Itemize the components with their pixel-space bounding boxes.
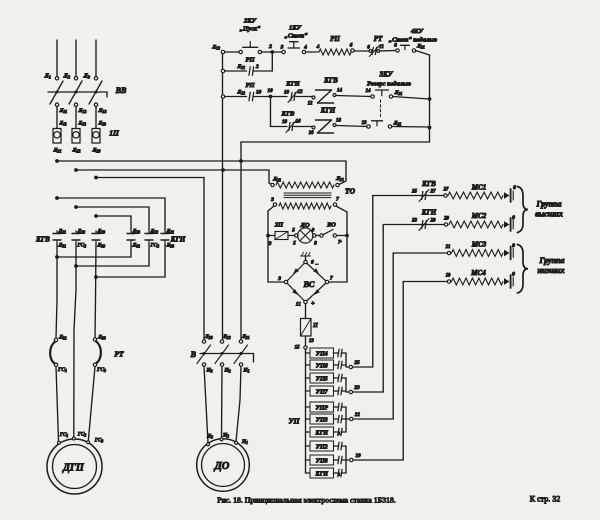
svg-text:12: 12 [308,102,313,107]
fuse 1P phase 3 [92,121,106,143]
wire group3 link [342,407,346,432]
svg-text:19: 19 [446,274,451,279]
wire row1 c [306,51,318,53]
svg-text:„Стоп“: „Стоп“ [285,33,309,40]
terminal GS1 [58,432,69,444]
svg-text:Л33: Л33 [97,243,106,249]
svg-text:Л22: Л22 [72,148,81,154]
svg-text:Л13: Л13 [98,108,107,114]
svg-text:Л12: Л12 [211,45,220,51]
svg-text:9: 9 [312,229,315,234]
limit switch УП6 rung [306,360,343,370]
wire L1 incoming phase 1 [56,40,58,77]
svg-text:16: 16 [296,120,302,125]
wire row2 [225,70,247,72]
svg-text:Л22: Л22 [77,229,86,235]
svg-text:Л21: Л21 [393,121,402,127]
wire bus phase2 drop to transformer [269,170,273,185]
svg-text:–: – [315,262,319,268]
wire N3 to motor [204,366,208,443]
svg-text:21: 21 [445,245,451,250]
switch V pole L22 [215,334,231,374]
terminal N1 [235,439,249,445]
button 3KU fwd contact [366,71,412,99]
contact RT row1 [367,35,384,57]
node 21 [346,412,393,421]
node L13 [94,103,106,114]
limit switch УП8 rung [306,455,343,465]
svg-text:0: 0 [513,185,516,191]
wire KGN bottom link to phase1 [55,243,131,259]
limit switch УП5 rung [306,373,343,383]
button 4KU stop pedal [389,28,438,52]
wire bus phase1 [55,159,346,163]
contact KGN column 3 [161,229,174,249]
svg-text:Н3: Н3 [206,434,213,440]
wire phase3 down [95,243,96,338]
wire L2 incoming phase 2 [75,40,77,77]
svg-text:Л11: Л11 [59,121,67,126]
wire phase2 down [74,243,76,437]
terminal N2 [220,433,229,441]
wire row1 b [262,51,283,53]
svg-text:ГС2: ГС2 [77,432,87,438]
fuse P [301,319,319,337]
svg-text:низших: низших [537,266,564,275]
svg-text:2: 2 [268,44,272,50]
wire node2 drop [271,52,273,71]
svg-text:Л81: Л81 [132,243,141,249]
svg-text:6: 6 [350,43,353,49]
limit switch УП3 rung [306,414,343,424]
label KGV [35,236,50,244]
limit switch УП4 rung [306,348,343,358]
svg-text:7: 7 [330,276,333,282]
wire N2 to motor [221,366,224,438]
wire phase1 down [56,243,57,338]
label L21 [53,148,62,154]
solenoid MC1 [443,184,517,203]
svg-text:Л31: Л31 [58,335,67,341]
wire fuse P down [306,336,315,346]
wire row4 a [271,126,288,128]
wire L11 to fuse [56,106,58,128]
wire row1 d [354,50,369,52]
node L1 [44,74,59,81]
label TO [345,187,356,196]
svg-text:25: 25 [353,360,360,366]
label UP [288,417,300,426]
svg-text:УП5: УП5 [316,376,328,382]
svg-text:9: 9 [314,242,317,247]
svg-text:КГВ: КГВ [281,111,295,118]
svg-text:Л21: Л21 [416,44,425,50]
coil KGV [308,77,343,107]
diode VS lower-right [314,289,320,295]
svg-text:„Пуск“: „Пуск“ [240,26,261,33]
svg-text:Л21: Л21 [241,334,250,340]
node L11 [55,103,67,114]
terminal GS2 [72,432,86,441]
svg-text:КГН: КГН [170,236,186,244]
svg-text:15: 15 [295,346,301,351]
wire row2 b [254,70,272,72]
wire VS to fuse P [305,304,307,319]
fuse 1P phase 1 [53,121,67,143]
wire GS3 to motor [88,367,95,441]
svg-text:ГС3: ГС3 [96,367,106,373]
wire L3 incoming phase 3 [95,40,97,77]
contact RP row3 [236,82,261,101]
svg-text:КГВ: КГВ [421,180,436,188]
wire row4 to right rail [392,126,430,129]
wire row3 to right rail [393,97,430,100]
svg-text:ГС1: ГС1 [57,367,67,373]
svg-text:Л13: Л13 [98,121,106,126]
svg-text:2П: 2П [274,222,284,229]
label V [190,350,197,359]
wire KGN bottom link to phase3 [94,243,165,279]
wire N1 to motor [236,366,241,441]
caption [217,496,396,505]
page ref [530,495,560,504]
svg-text:РТ: РТ [114,350,124,359]
svg-text:УПР: УПР [315,405,328,411]
svg-text:Л23: Л23 [92,148,101,154]
wire L12 to fuse [75,106,77,128]
node 2 [268,44,274,54]
svg-text:Л23: Л23 [204,334,213,340]
svg-text:Группа: Группа [539,256,565,265]
svg-text:11: 11 [296,302,301,308]
svg-text:4КУ: 4КУ [410,28,425,35]
svg-text:23: 23 [411,219,418,224]
switch V pole L21 [234,334,250,374]
svg-text:Л12: Л12 [78,108,87,114]
svg-text:Л22: Л22 [222,334,231,340]
wire row3 b [254,96,287,98]
button 1KU stop [280,25,309,54]
wire control rail right [428,55,432,142]
wire bus phase2 [74,168,269,172]
svg-text:29: 29 [443,217,449,222]
contact KGN MC2 row [383,209,444,231]
wire L13 to fuse [95,106,97,128]
svg-text:Рис. 18. Принципиальная электр: Рис. 18. Принципиальная электросхема ста… [217,496,396,505]
switch V pole L23 [197,334,213,374]
svg-text:0: 0 [512,215,515,221]
svg-text:Реверс педалью: Реверс педалью [367,81,411,88]
node 19 [346,453,403,462]
node 23 [346,385,383,394]
coil KGN [309,107,342,137]
svg-text:18: 18 [336,119,342,124]
switch VO [316,222,347,246]
wire row1 to right rail [416,51,430,56]
svg-text:ДГП: ДГП [62,463,85,474]
svg-text:ДО: ДО [214,461,230,472]
terminal GS3 [87,438,104,444]
svg-text:УП6: УП6 [316,363,328,369]
chassis symbol above VS [301,252,311,260]
svg-text:Л21: Л21 [335,176,344,182]
limit switch КГН rung [306,427,343,437]
limit switch УПР rung [306,402,343,412]
svg-text:14: 14 [366,89,372,94]
svg-text:РП: РП [330,35,340,43]
switch VV crossbar [48,91,107,98]
svg-text:7: 7 [336,197,339,203]
svg-text:К стр. 32: К стр. 32 [530,495,560,504]
svg-text:ГС2: ГС2 [77,243,87,249]
wire KGN top link phase2 [74,205,149,230]
svg-text:2: 2 [255,64,259,70]
svg-text:Л22: Л22 [150,229,159,235]
svg-text:ВВ: ВВ [115,86,127,95]
svg-text:высших: высших [535,210,563,219]
svg-text:Н2: Н2 [222,433,229,439]
button 3KU rev contact [362,121,402,129]
contact KGN column 1 [127,229,140,249]
solenoid MC3 [393,241,515,260]
node rail row1 [221,50,224,53]
svg-text:УП2: УП2 [316,444,328,450]
wire row3 c [296,96,313,98]
svg-text:КГН: КГН [421,209,437,217]
svg-text:„Стоп“ педалью: „Стоп“ педалью [389,37,438,44]
wire group1 link [342,353,346,367]
node 10 [267,88,273,98]
relay coil RP [316,35,355,55]
node 15 [295,346,308,351]
node rail row2 [221,69,224,72]
node 25 [346,360,373,369]
wire riser to MC3 [392,253,394,419]
label RT [114,350,124,359]
svg-text:16: 16 [309,131,314,136]
wire lamp right rail [328,206,349,282]
svg-text:Л2: Л2 [63,74,71,80]
svg-text:0: 0 [512,243,515,249]
diode VS upper-right [313,268,319,274]
node L3 [83,74,98,81]
contact KGV column 2 [72,229,86,249]
svg-text:27: 27 [430,190,437,195]
svg-text:УП8: УП8 [316,458,328,464]
svg-text:25: 25 [411,190,418,195]
wire GS1 to motor [56,367,59,442]
wire group4 link [342,446,346,473]
switch VV blade 3 [89,81,102,104]
svg-text:ТО: ТО [345,187,356,196]
svg-text:11: 11 [379,45,384,50]
switch VV blade 2 [69,81,82,104]
svg-text:ЛО: ЛО [299,222,309,229]
svg-text:10: 10 [284,91,290,96]
svg-text:7·: 7· [338,241,343,246]
svg-text:5: 5 [292,229,295,234]
motor DGP [47,439,102,494]
fuse 1P phase 2 [72,121,86,143]
svg-text:2КУ: 2КУ [243,18,258,25]
svg-text:+: + [311,300,315,307]
label L12 row1 [211,45,220,51]
svg-text:3: 3 [280,45,284,51]
svg-text:РП: РП [245,82,255,89]
label gruppa vysshikh [535,200,563,219]
svg-text:КГН: КГН [285,81,300,88]
svg-text:Л21: Л21 [58,229,67,235]
svg-text:КГН: КГН [320,107,336,115]
transformer TO primary [271,176,344,188]
svg-text:Л22: Л22 [272,177,281,183]
wire riser to MC1 [372,196,374,368]
wire group2 link [342,378,346,392]
switch VV blade 1 [50,81,63,104]
svg-text:13: 13 [309,339,314,344]
svg-text:КГН: КГН [315,471,329,477]
wire lamp left rail [266,206,286,282]
switch V crossbar [200,352,254,362]
wire riser to MC4 [402,282,404,461]
svg-text:РП: РП [245,57,255,64]
node L12 [74,103,86,114]
label 1P [109,129,120,138]
diode VS lower-left [292,289,298,295]
thermal element RT phase1 [50,335,67,374]
transformer TO secondary [270,197,339,210]
svg-text:4: 4 [316,44,320,50]
svg-text:Н1: Н1 [243,368,250,374]
svg-text:УП7: УП7 [316,389,329,395]
svg-text:Л21: Л21 [166,229,175,235]
label L22 [72,148,81,154]
svg-text:3: 3 [277,276,281,282]
svg-text:Л31: Л31 [58,243,67,249]
svg-text:Л1: Л1 [44,74,51,80]
svg-text:Л11: Л11 [59,108,68,114]
svg-text:14: 14 [337,89,343,94]
diode VS upper-left [293,268,299,274]
lamp LO [292,222,317,247]
svg-text:12: 12 [298,90,304,95]
button 2KU start [239,18,261,54]
wire bus phase1 drop to transformer [338,161,346,185]
svg-text:10: 10 [267,88,273,94]
svg-text:Л12: Л12 [236,64,245,70]
svg-text:1КУ: 1КУ [289,25,303,32]
svg-text:3КУ: 3КУ [378,71,393,79]
svg-text:Н1: Н1 [241,439,248,445]
svg-text:УП3: УП3 [316,417,328,423]
solenoid MC4 [403,269,515,288]
svg-text:ВО: ВО [326,222,336,229]
limit switch УП7 rung [306,386,343,396]
svg-text:Л23: Л23 [97,229,106,235]
svg-text:Л21: Л21 [53,148,62,154]
label KGN [170,236,186,244]
wire row1 a [225,51,239,53]
wire node10 drop [270,97,272,127]
motor DO [197,439,250,492]
svg-text:П: П [312,323,318,329]
wire row3 a [225,96,247,98]
solenoid MC2 [443,212,515,231]
wire KGN top link phase1 [55,196,165,230]
svg-text:Группа: Группа [536,200,562,209]
svg-text:Л33: Л33 [97,335,106,341]
svg-text:1П: 1П [109,129,120,138]
contact KGN row3 [284,81,303,103]
wire row3 d [336,96,371,97]
wire row1 e [381,50,396,53]
svg-text:21: 21 [354,412,361,418]
contact KGV column 1 [53,229,66,249]
svg-text:УП: УП [288,417,300,426]
rectifier VS bridge [277,260,333,308]
svg-text:Л12: Л12 [78,121,86,126]
svg-text:В: В [190,350,197,359]
svg-text:Л21: Л21 [394,90,403,96]
contact KGV column 3 [92,229,105,249]
label gruppa nizshikh [537,256,564,275]
label VV [115,86,127,95]
transformer TO core [284,193,331,198]
wire row4 c [336,126,367,127]
svg-text:Н2: Н2 [224,368,231,374]
svg-text:КГН: КГН [315,430,329,436]
svg-text:19: 19 [355,453,361,459]
label L23 [92,148,101,154]
wire row4 b [294,126,313,128]
wire KGN top link phase3 [94,214,131,230]
node rail row3 [221,95,224,98]
svg-text:4: 4 [303,45,307,51]
wire UP bus [305,349,307,473]
wire coil return [241,141,430,143]
node L2 [63,74,78,81]
svg-text:УП4: УП4 [316,351,328,357]
svg-text:10: 10 [256,90,262,96]
fuse 2P [268,222,295,248]
svg-text:13: 13 [362,121,368,126]
svg-text:КГВ: КГВ [323,77,338,85]
svg-text:КГВ: КГВ [35,236,50,244]
svg-text:РТ: РТ [374,35,383,43]
svg-text:23: 23 [353,385,360,391]
wire L23 drop [203,178,205,340]
svg-text:МС2: МС2 [471,212,487,220]
svg-text:ВС: ВС [303,279,315,289]
terminal N3 [206,434,213,446]
svg-text:Л23: Л23 [132,229,141,235]
svg-text:10: 10 [282,120,288,125]
svg-text:Н3: Н3 [206,368,213,374]
wire bus phase3 [94,176,204,180]
svg-text:ГС3: ГС3 [94,438,104,444]
wire control rail left [222,52,224,340]
svg-text:27: 27 [443,188,449,193]
svg-text:29: 29 [430,219,437,224]
svg-text:ГС1: ГС1 [59,432,69,438]
limit switch КГН rung [306,468,343,478]
svg-text:0: 0 [311,260,314,266]
mechanical link 3KU dashed [380,100,382,117]
wire KGN bottom link to phase2 [74,243,149,268]
contact KGV row4 [281,111,301,133]
svg-text:3: 3 [268,241,272,247]
contact KGN column 2 [145,229,159,249]
